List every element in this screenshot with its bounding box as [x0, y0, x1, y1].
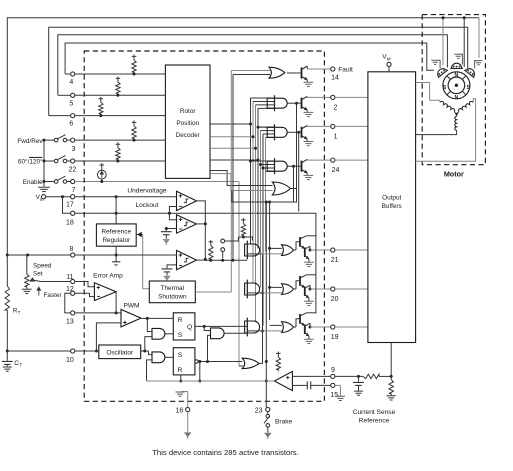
wire pin 8 Vref — [7, 254, 176, 257]
pin 17 — [71, 195, 75, 199]
wire pin 1 to output buffers — [335, 125, 368, 127]
OR gate C — [242, 358, 259, 368]
wire pin 15 to ground — [335, 385, 345, 400]
svg-text:S: S — [178, 332, 183, 339]
wire decoder bus b4 — [210, 108, 275, 248]
svg-text:Error Amp: Error Amp — [93, 273, 123, 280]
wire latch2 output — [198, 360, 242, 363]
wire pin 4 to decoder — [65, 73, 165, 75]
wire PWM output — [141, 317, 173, 320]
svg-text:9: 9 — [331, 367, 335, 374]
internal ground tie — [175, 392, 187, 408]
svg-text:8: 8 — [70, 246, 74, 253]
wire pin 16 to ground — [187, 412, 189, 433]
wire comparator output node — [197, 201, 248, 261]
transistor top-drive pin1 — [287, 125, 331, 145]
svg-text:1: 1 — [334, 134, 338, 141]
wire pin 3 to decoder — [75, 139, 166, 141]
OR gate row 20 — [282, 284, 294, 295]
svg-text:12: 12 — [66, 286, 74, 293]
AND gate row 19 — [245, 318, 260, 337]
wire current feedback to gate B — [147, 360, 153, 381]
wire gate A output to latch1 S — [164, 333, 173, 335]
wire Vc collector rail — [267, 213, 316, 313]
svg-text:23: 23 — [255, 407, 263, 414]
comparator undervoltage U2b — [177, 215, 197, 234]
wire base feeder 3 — [292, 165, 295, 202]
svg-text:4: 4 — [69, 79, 73, 86]
label oscillator — [106, 349, 134, 356]
label RT — [13, 308, 21, 316]
resistor pull-up row21 gate — [241, 218, 246, 239]
label faster — [37, 287, 62, 299]
label pin 5 — [69, 101, 73, 108]
AND gate top-drive pin2 — [251, 95, 288, 111]
wire decoder bus b7 — [265, 138, 267, 252]
capacitor current sense filter — [292, 381, 330, 389]
pin 23 — [266, 407, 270, 411]
svg-text:S: S — [443, 85, 447, 91]
wire thermal-shutdown to fault OR — [230, 71, 232, 293]
label pin 14 — [331, 75, 339, 82]
pin 18 — [71, 211, 75, 215]
ground hall right — [475, 61, 483, 69]
reference regulator box U3 — [96, 224, 136, 246]
svg-text:21: 21 — [331, 257, 339, 264]
wire pin 2 to output buffers — [335, 96, 368, 98]
ground switch bus — [38, 187, 50, 191]
label pin 17 — [66, 202, 74, 209]
wire comp1 inv / comp2 noninv riser — [168, 207, 177, 220]
svg-text:22: 22 — [69, 167, 77, 174]
wire pin 11 to error amp — [75, 282, 95, 287]
svg-text:2: 2 — [334, 105, 338, 112]
pin 5 — [71, 93, 75, 97]
svg-text:17: 17 — [66, 202, 74, 209]
wire commutation OR output wrap — [232, 189, 297, 204]
comparator undervoltage U2a — [177, 191, 197, 210]
pin 16 — [186, 407, 190, 411]
wire pin 5 to decoder — [58, 94, 166, 96]
svg-text:Brake: Brake — [275, 419, 293, 426]
svg-text:S: S — [466, 85, 470, 91]
wire feeder-OR link row 20 — [270, 286, 282, 288]
junction Vref/pin8 — [6, 254, 9, 257]
labels latch 2 — [178, 352, 183, 374]
RS latch 2 — [173, 348, 195, 375]
comparator lockout U2c — [177, 250, 197, 269]
error amp U4 — [94, 283, 116, 301]
IC boundary (dashed) — [84, 51, 324, 401]
wire PWM noninv from oscillator — [95, 323, 121, 353]
wire pin 20 to output buffers — [335, 288, 368, 290]
wire current sense output feedback — [147, 380, 275, 382]
terminal VM — [382, 54, 391, 67]
resistor pull-up R4 — [132, 55, 137, 76]
label Fwd/Rev — [17, 138, 43, 145]
wire decoder bus b3 — [210, 105, 257, 322]
svg-text:Speed: Speed — [33, 263, 52, 270]
wire latch1 Q to gate D — [204, 326, 210, 330]
svg-text:3: 3 — [72, 146, 76, 153]
pin 4 — [71, 72, 75, 76]
capacitor C-cs — [353, 376, 364, 395]
pin 6 — [71, 114, 75, 118]
pin 21 — [331, 248, 335, 252]
RS latch 1 — [173, 313, 195, 340]
ground hall middle — [454, 54, 462, 64]
svg-text:19: 19 — [331, 334, 339, 341]
wire pin 24 to output buffers — [335, 159, 368, 161]
svg-text:Decoder: Decoder — [176, 132, 201, 139]
wire decoder to commutation OR b — [210, 174, 273, 191]
wire output row 21 — [310, 249, 331, 251]
pin 20 — [331, 287, 335, 291]
label pin 3 — [72, 146, 76, 153]
pin 14 — [331, 67, 335, 71]
ground brake — [265, 433, 272, 439]
wire node b stub — [222, 252, 224, 259]
wire Vref branch to middle sensor — [463, 16, 466, 67]
label pin 10 — [66, 357, 74, 364]
hall sensor left — [435, 66, 448, 78]
hall sensor right — [464, 66, 477, 78]
wire pin 10 — [7, 350, 99, 352]
wire pin 21 to output buffers — [335, 249, 368, 251]
label pin 8 — [70, 246, 74, 253]
wire node a stub — [225, 237, 239, 241]
AND gate top-drive pin24 — [251, 158, 288, 174]
label pin 2 — [334, 105, 338, 112]
OR gate commutation — [272, 182, 290, 195]
label pin 21 — [331, 257, 339, 264]
svg-text:Reference: Reference — [359, 417, 390, 424]
labels latch 1 — [178, 317, 193, 339]
resistor current sense R-cs — [363, 374, 391, 378]
wire winding node — [454, 112, 458, 116]
label pin 20 — [331, 296, 339, 303]
wire error amp output riser — [115, 292, 117, 313]
wire decoder to commutation OR a — [210, 171, 273, 186]
wire Vref rail from pin 8 up left side and across top to motor — [7, 18, 479, 255]
svg-text:15: 15 — [330, 392, 338, 399]
transistor top-drive fault — [287, 66, 331, 86]
pin 13 — [71, 311, 75, 315]
svg-text:60°/120°: 60°/120° — [18, 158, 43, 166]
wire latch2 R input riser — [179, 375, 182, 383]
pin 7 — [71, 179, 75, 183]
wire thermal shutdown output — [195, 291, 231, 293]
svg-text:7: 7 — [72, 187, 76, 194]
svg-text:Current Sense: Current Sense — [353, 409, 396, 416]
wire comp2 inv input — [165, 227, 177, 231]
wire output buffers to current sense — [390, 343, 392, 377]
label pin 9 — [331, 367, 335, 374]
wire decoder bus b6 — [262, 134, 264, 326]
capacitor CT — [2, 350, 13, 372]
svg-text:Undervoltage: Undervoltage — [127, 188, 167, 195]
label current sense reference — [353, 409, 396, 424]
svg-text:Buffers: Buffers — [382, 203, 402, 210]
wire pin 7 enable line — [75, 182, 239, 367]
wire decoder bus b2 — [210, 102, 255, 284]
pin 11 — [71, 279, 75, 283]
wire reference to thermal shutdown — [143, 235, 150, 289]
wire reference regulator output arrow — [136, 232, 143, 238]
rotor — [443, 72, 471, 101]
wire AND-OR link row 20 — [261, 292, 282, 294]
label thermal shutdown — [158, 285, 187, 301]
svg-text:20: 20 — [331, 296, 339, 303]
wire latch2 to gate D — [208, 335, 211, 361]
svg-text:Oscillator: Oscillator — [106, 349, 134, 356]
OR gate row 19 — [282, 322, 294, 333]
resistor pull-up R5 — [116, 77, 121, 97]
wire reference regulator ground — [112, 246, 120, 267]
svg-text:14: 14 — [331, 75, 339, 82]
winding C (bottom) — [455, 113, 458, 131]
svg-text:N: N — [455, 95, 459, 101]
label pin 6 — [69, 121, 73, 128]
resistor current sense pull-up — [276, 352, 281, 372]
svg-text:T: T — [19, 363, 22, 368]
label pin 12 — [66, 286, 74, 293]
wire comp3 output — [197, 259, 206, 261]
wire sensor phase SA loop (pin 4) — [65, 43, 434, 74]
wire switch common bus — [43, 140, 45, 186]
winding A (left) — [440, 100, 456, 111]
ground speed pot — [22, 289, 32, 293]
transistor darlington row 19 — [293, 313, 316, 344]
label pin 23 — [255, 407, 263, 414]
wire sensor phase SC loop (pin 6) — [49, 27, 468, 115]
wire phase C to output buffers — [416, 130, 457, 134]
label speed set — [33, 263, 52, 278]
svg-text:M: M — [387, 56, 391, 61]
wire comp3 inv input — [167, 265, 177, 268]
pin 8 — [71, 253, 75, 257]
svg-text:S: S — [178, 352, 183, 359]
ground hall left — [431, 60, 440, 68]
label pin 16 — [176, 407, 184, 414]
label output buffers — [382, 195, 402, 211]
resistor pull-up comparator node — [209, 240, 214, 260]
wire pin 13 to PWM — [75, 311, 123, 314]
wire AND-OR link row 19 — [261, 330, 282, 332]
resistor pull-up R6 — [99, 97, 104, 117]
AND gate row 21 — [245, 241, 260, 260]
wire pin 9 network — [335, 375, 393, 378]
caption — [152, 448, 299, 457]
pin 12 — [71, 291, 75, 295]
AND gate A (latch1 set) — [152, 328, 165, 339]
pin 19 — [331, 325, 335, 329]
svg-text:5: 5 — [69, 101, 73, 108]
svg-text:Fwd/Rev: Fwd/Rev — [17, 138, 43, 145]
svg-text:11: 11 — [66, 274, 73, 281]
motor boundary (dashed) — [422, 15, 485, 165]
wire oscillator to gate A — [145, 337, 152, 351]
svg-text:Set: Set — [33, 271, 43, 278]
wire pin 17 to UV comparator — [75, 196, 177, 198]
pin 15 — [331, 383, 335, 387]
svg-text:Fault: Fault — [338, 67, 353, 74]
wire bottom OR feeder — [268, 202, 271, 320]
wire latch1 Q output — [195, 325, 247, 328]
pin 24 — [331, 158, 335, 162]
svg-text:6: 6 — [69, 121, 73, 128]
svg-text:in: in — [40, 197, 44, 202]
ground pin 16 — [184, 433, 191, 439]
label pin 11 — [66, 274, 73, 281]
svg-text:Thermal: Thermal — [161, 285, 184, 292]
label pin 1 — [334, 134, 338, 141]
wire PWM to gate A — [147, 318, 152, 331]
capacitor ref node C-int1 — [161, 232, 172, 246]
junction dots comparator line — [209, 259, 224, 262]
label pin 7 — [72, 187, 76, 194]
label CT — [14, 360, 22, 368]
transistor darlington row 21 — [293, 236, 316, 267]
wire feeder-OR link row 19 — [270, 324, 282, 326]
wire Vin to pin 17 — [46, 196, 71, 198]
wire speed to pin 11 — [41, 281, 71, 283]
latch2 inverted output — [195, 360, 198, 363]
switch Enable — [43, 176, 71, 183]
label pin 4 — [69, 79, 73, 86]
wire Vref branch to left sensor — [442, 16, 445, 65]
node terminal b — [221, 248, 225, 252]
wire decoder bus b5 — [260, 131, 262, 288]
svg-text:R: R — [178, 317, 183, 324]
capacitor comp3 inv C-int2 — [162, 269, 173, 282]
pin 22 — [71, 159, 75, 163]
svg-text:Position: Position — [176, 120, 199, 127]
OR gate fault logic — [231, 67, 284, 78]
pin 1 — [331, 124, 335, 128]
svg-text:24: 24 — [332, 167, 340, 174]
wire oscillator output — [141, 350, 149, 353]
wire pin 22 to decoder — [75, 160, 166, 162]
svg-text:T: T — [18, 310, 21, 315]
rotor position decoder box U1 — [165, 65, 210, 178]
transistor top-drive pin2 — [287, 96, 331, 116]
label pin 22 — [69, 167, 77, 174]
svg-text:16: 16 — [176, 407, 184, 414]
label 60/120 select — [18, 157, 43, 165]
wire decoder bus b1 — [210, 98, 252, 245]
wire gate C output riser — [247, 254, 264, 364]
svg-text:Reference: Reference — [102, 228, 132, 235]
wire VM to output buffers — [388, 67, 390, 72]
svg-text:This device contains 285 activ: This device contains 285 active transist… — [152, 448, 299, 457]
transistor top-drive pin24 — [287, 159, 331, 179]
label brake — [275, 419, 293, 426]
label undervoltage — [127, 188, 167, 195]
wire phase A to output buffers — [416, 83, 440, 103]
node terminal a — [221, 239, 225, 243]
label lockout — [135, 202, 158, 209]
wire AND-OR link row 21 — [261, 253, 282, 255]
transistor darlington row 20 — [293, 275, 316, 306]
svg-text:R: R — [178, 367, 183, 374]
wire feeder-OR link row 21 — [270, 247, 282, 249]
AND gate D — [211, 328, 225, 339]
PWM comparator U5 — [121, 303, 141, 327]
switch Fwd/Rev — [43, 135, 71, 142]
wire phase B to output buffers — [416, 99, 476, 161]
wire pin 19 to output buffers — [335, 326, 368, 328]
AND gate top-drive pin1 — [258, 124, 287, 140]
wire base feeder 2 — [297, 131, 300, 212]
wire latch2 output to feedback — [198, 362, 201, 383]
label pin 24 — [332, 167, 340, 174]
wire pin 12-13 tie — [65, 293, 71, 313]
switch 60/120 — [43, 156, 71, 163]
label pin 13 — [66, 319, 74, 326]
potentiometer speed set — [25, 255, 29, 289]
AND gate row 20 — [245, 280, 260, 299]
label pin 15 — [330, 392, 338, 399]
wire comparator outputs to fault OR — [232, 75, 235, 262]
oscillator box U6 — [99, 345, 141, 359]
svg-text:Q: Q — [187, 324, 192, 331]
wire pin17 to reference regulator — [115, 195, 118, 224]
resistor R-ref — [387, 376, 396, 400]
wire gate C input stub — [239, 365, 243, 367]
terminal Vin — [36, 194, 46, 202]
wire oscillator to gate B — [149, 351, 153, 355]
svg-text:10: 10 — [66, 357, 74, 364]
wiper arrow speed pot — [30, 278, 41, 282]
svg-text:Enable: Enable — [23, 179, 43, 186]
pin 2 — [331, 95, 335, 99]
svg-text:18: 18 — [66, 220, 74, 227]
svg-text:Shutdown: Shutdown — [158, 293, 187, 300]
wire row21 gate top feed — [238, 237, 252, 241]
label error amp — [93, 273, 123, 280]
wire pin 18 Vc line — [75, 212, 268, 214]
winding B (right) — [458, 100, 474, 111]
label rotor position decoder — [176, 108, 201, 139]
svg-text:N: N — [455, 73, 459, 79]
wire output row 19 — [310, 326, 331, 328]
wire pin 12 to error amp — [75, 293, 95, 296]
svg-text:13: 13 — [66, 319, 74, 326]
label Enable — [23, 179, 43, 186]
resistor pull-up R3 — [132, 121, 137, 142]
svg-text:Regulator: Regulator — [102, 237, 131, 244]
wire gate D output — [224, 332, 247, 334]
label reference regulator — [102, 228, 132, 244]
comparator current sense U7 — [274, 371, 292, 390]
label pin 19 — [331, 334, 339, 341]
current source enable pull-up — [97, 163, 106, 183]
wire output row 20 — [310, 288, 331, 290]
svg-text:Output: Output — [382, 195, 401, 202]
wire pin 6 to decoder — [49, 115, 166, 117]
AND gate B (latch2 set) — [152, 352, 165, 363]
label motor — [444, 169, 464, 178]
wire comp2 output — [197, 223, 206, 225]
label pin 18 — [66, 220, 74, 227]
switch brake — [264, 412, 270, 433]
junction dots gate24 taps — [249, 160, 265, 170]
label Fault — [338, 67, 353, 74]
pin 10 — [71, 349, 75, 353]
svg-text:Rotor: Rotor — [180, 108, 196, 115]
svg-text:PWM: PWM — [123, 303, 139, 310]
